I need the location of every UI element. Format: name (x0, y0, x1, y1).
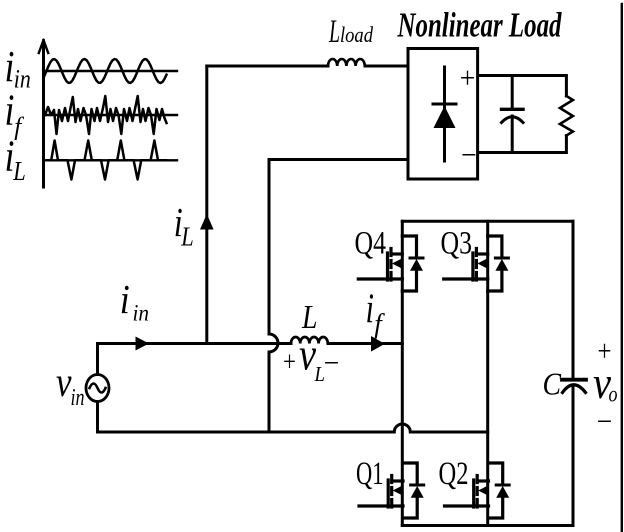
transistor Q4 (358, 236, 423, 291)
svg-text:L: L (314, 362, 325, 386)
waveform i_f baseline (44, 114, 178, 116)
svg-text:i: i (5, 86, 15, 135)
svg-text:L: L (328, 14, 340, 50)
svg-text:i: i (366, 287, 375, 333)
waveform i_f trace (45, 96, 167, 134)
svg-text:–: – (324, 344, 338, 377)
load box right top wire y=75.5 (478, 76, 566, 97)
svg-text:+: + (460, 62, 476, 95)
wire: vertical x=269 from load box bottom wire down with hop over top wire (269, 160, 278, 433)
inductor L_load coil (328, 59, 365, 66)
wire: load box lower-left horizontal y=159.5 (269, 158, 408, 161)
wire: bottom horizontal y=432 with hop over left bridge leg (98, 424, 488, 432)
capacitor C plates (562, 380, 586, 393)
svg-text:Nonlinear Load: Nonlinear Load (397, 6, 562, 45)
border right edge line (621, 4, 623, 532)
DC bus wire x=573 lower (572, 387, 575, 526)
load box right bottom wire y=152.5 (478, 136, 566, 153)
arrow i_f on wire (371, 336, 385, 352)
load resistor zigzag (560, 96, 573, 136)
bridge right leg x=487.7 (486, 221, 489, 525)
bridge left leg x=402.3 (401, 221, 404, 525)
svg-text:L: L (180, 222, 193, 252)
svg-text:–: – (597, 402, 611, 435)
nonlinear load box (408, 49, 478, 180)
waveform i_L pulse trace (47, 141, 166, 180)
AC source sine glyph (90, 384, 106, 393)
waveform axis (39, 40, 48, 187)
bridge top rail y=221.2 (402, 220, 573, 223)
arrow i_in on wire (136, 337, 150, 351)
wire: top horizontal source wire y=343.5 (98, 342, 403, 345)
svg-text:load: load (340, 22, 374, 47)
diode inside box (433, 67, 456, 161)
svg-text:Q3: Q3 (441, 225, 473, 261)
svg-text:Q4: Q4 (355, 225, 387, 261)
svg-text:in: in (133, 301, 150, 326)
svg-text:in: in (14, 65, 31, 94)
filter inductor L coil (291, 337, 328, 344)
arrow i_L head pointing up (200, 214, 214, 230)
wire: i_L vertical x=206.8 from top wire up to load wire (205, 66, 208, 344)
svg-text:L: L (12, 156, 25, 186)
waveform i_L baseline (44, 159, 178, 161)
svg-text:Q2: Q2 (439, 456, 469, 492)
svg-text:v: v (56, 360, 72, 406)
wire: top-left load horizontal y=66 (207, 65, 408, 68)
transistor Q2 (445, 463, 510, 518)
transistor Q1 (359, 463, 424, 518)
svg-text:i: i (120, 276, 130, 322)
AC source v_in circle (86, 375, 109, 402)
transistor Q3 (444, 236, 509, 291)
svg-text:Q1: Q1 (356, 456, 384, 492)
svg-text:–: – (462, 136, 476, 169)
waveform i_in baseline (44, 70, 178, 72)
svg-text:C: C (543, 365, 562, 401)
bridge bottom rail y=525.5 (402, 524, 573, 527)
wire: source loop left vertical (x=97.5) (96, 344, 99, 433)
svg-text:+: + (283, 347, 296, 378)
svg-text:v: v (299, 330, 316, 380)
svg-text:in: in (71, 385, 85, 411)
waveform i_in sine trace (45, 59, 167, 83)
load capacitor branch (502, 76, 524, 153)
DC bus wire x=573 upper (572, 221, 575, 378)
